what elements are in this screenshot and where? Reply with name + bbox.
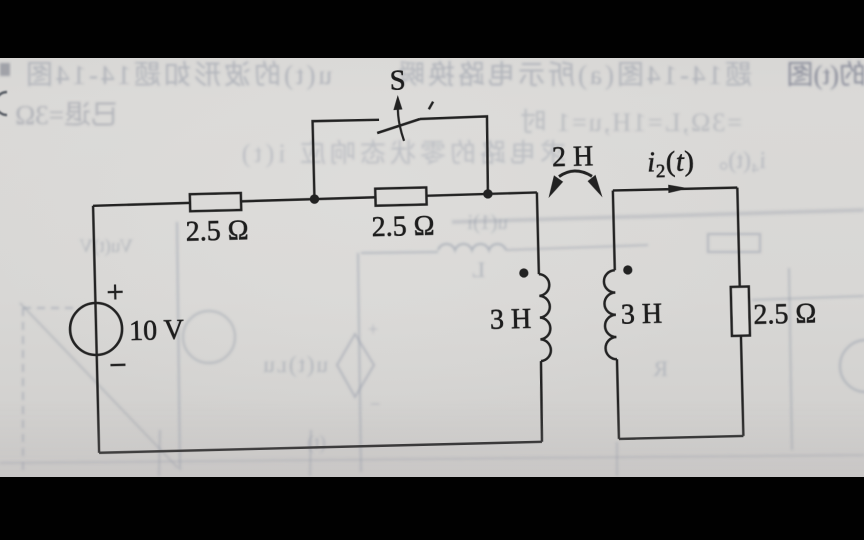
switch S contact tick — [429, 102, 434, 110]
polarity dot L2 — [623, 265, 632, 274]
svg-text:R: R — [653, 356, 668, 381]
bleed diagonal line bottom left — [20, 303, 178, 468]
bottom vignette — [0, 400, 864, 477]
switch S closing arrow — [398, 101, 404, 141]
svg-text:u(t)ʟu: u(t)ʟu — [261, 352, 328, 377]
svg-text:3 H: 3 H — [621, 299, 663, 331]
svg-text:2.5 Ω: 2.5 Ω — [185, 215, 249, 248]
svg-text:u(t)的波形如题14-14图: u(t)的波形如题14-14图 — [23, 60, 332, 90]
top black bar — [0, 0, 864, 58]
svg-text:i₄(t)。: i₄(t)。 — [704, 148, 766, 174]
svg-text:L: L — [472, 257, 485, 282]
wire: switch branch right — [420, 116, 489, 195]
svg-text:已退=3Ω: 已退=3Ω — [15, 100, 118, 130]
inductor L2 3 H coil — [604, 270, 617, 359]
svg-text:求电路的零状态响应 i(t): 求电路的零状态响应 i(t) — [238, 139, 566, 168]
svg-text:3 H: 3 H — [490, 304, 532, 336]
wire: switch branch left vertical and stub — [313, 119, 381, 199]
switch S blade — [377, 119, 421, 133]
wire: primary right upper — [537, 192, 539, 274]
bleed diamond dependent source — [337, 334, 374, 397]
source - sign — [110, 364, 125, 367]
wire: secondary right — [737, 188, 743, 436]
bleed ghost circle near source — [183, 311, 235, 363]
secondary loop: left upper wire — [613, 190, 615, 270]
svg-text:题14-14图(a)所示电路换瞬: 题14-14图(a)所示电路换瞬 — [395, 60, 752, 90]
bleed vertical line x=359 — [358, 253, 361, 472]
svg-text:2.5 Ω: 2.5 Ω — [371, 211, 435, 244]
bleed dashed corner bottom-left — [23, 307, 80, 309]
bleed horizontal line right — [752, 296, 864, 300]
svg-text:的(t)图: 的(t)图 — [787, 60, 864, 90]
svg-text:+: + — [368, 319, 378, 339]
node B junction dot — [483, 189, 493, 199]
left edge dark mark ( — [0, 92, 7, 115]
bleed vertical line right x=790 — [789, 268, 792, 450]
wire: primary left — [93, 206, 99, 453]
wire: secondary top — [613, 187, 737, 190]
source + sign — [107, 284, 122, 299]
wire: primary right lower — [540, 361, 543, 442]
current i2(t) arrowhead — [668, 184, 689, 193]
bleed horizontal wire with coil — [361, 252, 438, 253]
bleed faint horizontal near bottom — [0, 455, 864, 463]
mutual coupling M = 2 H arrow — [559, 171, 592, 178]
svg-text:u(1)i: u(1)i — [467, 210, 508, 234]
svg-text:2.5 Ω: 2.5 Ω — [753, 298, 817, 331]
bleed arc right edge — [840, 340, 864, 392]
bleed-through (mirrored) faint print from reverse page — [0, 60, 864, 476]
resistor R1 2.5 ohm — [190, 193, 241, 211]
inductor L1 3 H coil — [539, 274, 551, 361]
node A junction dot — [310, 194, 320, 204]
svg-text:=3Ω,L=1H,u=1 时: =3Ω,L=1H,u=1 时 — [519, 108, 742, 137]
svg-text:S: S — [389, 65, 406, 96]
resistor R3 2.5 ohm — [731, 287, 750, 336]
bleed short verticals bottom — [159, 430, 160, 476]
svg-text:i2(t): i2(t) — [647, 146, 695, 182]
svg-text:10 V: 10 V — [129, 315, 184, 347]
svg-text:2 H: 2 H — [552, 141, 594, 173]
wire: primary bottom — [99, 442, 542, 453]
left edge small blob top — [0, 63, 10, 76]
schematic (rotated slightly like the photo) — [64, 55, 819, 453]
bleed vertical line x=177 — [177, 222, 180, 470]
bleed small box right — [708, 234, 760, 252]
voltage source V1 10 V — [69, 302, 122, 355]
svg-text:Vu(t)V: Vu(t)V — [79, 236, 133, 257]
wire: primary loop top — [93, 192, 537, 205]
wire: secondary bottom — [619, 436, 743, 439]
polarity dot L1 — [519, 268, 528, 277]
bleed horizontal streak mid right — [452, 210, 864, 222]
wire: secondary left lower — [617, 359, 619, 439]
bottom black bar — [0, 477, 864, 540]
resistor R2 2.5 ohm — [375, 187, 426, 205]
